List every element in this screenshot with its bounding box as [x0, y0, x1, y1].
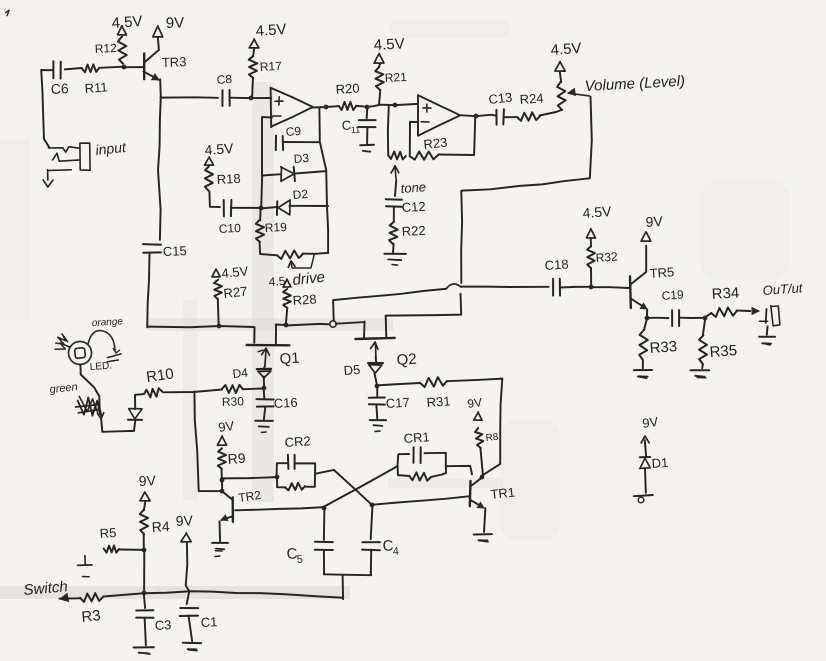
wire 9V to C1 — [186, 542, 190, 604]
resistor R24 — [517, 112, 540, 121]
power arrow 4.5V volume — [555, 62, 565, 72]
resistor R32 — [587, 238, 595, 268]
wire emitter to C8 — [160, 96, 218, 99]
resistor R27 — [214, 280, 222, 300]
wire D5 to R31 — [376, 383, 420, 385]
wire D2 left — [261, 207, 277, 209]
capacitor C8 — [222, 90, 229, 106]
capacitor CR2 cap — [288, 455, 295, 469]
svg-text:R5: R5 — [99, 525, 117, 541]
node R9 junction — [220, 478, 225, 483]
wire bus to circle junction — [286, 324, 329, 326]
resistor R5 — [104, 546, 119, 553]
wire C10 right — [231, 207, 261, 209]
wire left rail C9-D3 — [261, 143, 263, 175]
ground R35 — [691, 364, 710, 378]
wire C5 diag to CR1 — [324, 466, 398, 507]
wire volume down 3 — [386, 294, 462, 316]
resistor R34 — [705, 308, 737, 318]
label input — [95, 139, 128, 158]
ground TR2 — [212, 543, 228, 557]
power arrow 9V R8 — [474, 412, 482, 420]
transistor TR5 — [630, 246, 647, 318]
svg-text:R11: R11 — [84, 79, 108, 96]
svg-text:R3: R3 — [81, 607, 102, 626]
svg-text:R34: R34 — [711, 285, 739, 303]
svg-text:R32: R32 — [595, 249, 618, 265]
label TR5 — [649, 264, 675, 281]
wire LED bottom — [101, 419, 134, 432]
node R17 junction — [249, 96, 254, 101]
node bus C3 junction — [142, 591, 147, 596]
label C12 — [401, 199, 426, 215]
resistor R23 — [410, 152, 438, 160]
power 4.5V label R17 — [255, 21, 287, 40]
label C17 — [385, 395, 410, 411]
svg-text:9V: 9V — [641, 414, 659, 431]
wire R10 left down — [135, 394, 143, 409]
svg-text:input: input — [95, 139, 128, 158]
capacitor C9 — [276, 136, 283, 150]
power arrow 4.5V R18 — [205, 157, 214, 165]
svg-text:R35: R35 — [709, 342, 738, 361]
svg-text:4.5V: 4.5V — [255, 21, 287, 40]
power arrow 4.5V R32 — [587, 229, 596, 238]
wire drain bus up — [333, 289, 446, 321]
resistor R33 — [639, 319, 648, 361]
label D4 — [232, 365, 249, 381]
capacitor C11 — [358, 107, 375, 127]
node TR2 coll junction — [220, 489, 225, 494]
power arrow 4.5V R27 — [212, 269, 220, 277]
label C6 — [50, 80, 69, 97]
power arrow 9V C1 — [181, 533, 191, 542]
resistor R17 — [249, 49, 257, 78]
power 4.5V label volume — [550, 40, 582, 59]
power 9V label R4 — [138, 472, 157, 489]
volume wiper arrow — [568, 89, 589, 96]
label Q1 — [279, 350, 300, 368]
label C19 — [661, 287, 684, 303]
svg-text:9V: 9V — [138, 472, 157, 489]
capacitor C1 — [180, 608, 198, 616]
resistor R10 — [144, 388, 162, 397]
box CR1 — [398, 453, 447, 476]
svg-text:C16: C16 — [273, 395, 298, 411]
LED equal marks — [107, 354, 121, 362]
label Volume — [584, 73, 685, 95]
svg-text:R31: R31 — [426, 393, 451, 410]
svg-text:9V: 9V — [645, 213, 664, 230]
wire bottom drop to bus — [342, 576, 345, 600]
wire R5 to R4 — [119, 549, 144, 551]
svg-text:C10: C10 — [218, 221, 241, 236]
output jack — [759, 306, 780, 326]
node D5 junction — [375, 384, 380, 389]
wire C12 to R22 — [393, 207, 395, 222]
wire C5 C4 bottom — [324, 573, 372, 576]
ground C11 — [360, 127, 374, 151]
wire R30 left — [163, 390, 222, 393]
svg-text:C15: C15 — [163, 243, 187, 259]
ground C16 — [255, 407, 273, 433]
capacitor C18 — [553, 279, 560, 296]
wire R32 down — [590, 268, 592, 287]
node CR2 left — [275, 475, 280, 480]
label R27 — [223, 284, 248, 301]
power 9V label D1 — [641, 414, 659, 431]
resistor R31 — [420, 377, 447, 387]
label C10 — [218, 221, 241, 236]
LED circle — [69, 342, 92, 365]
svg-text:4.5V: 4.5V — [582, 203, 613, 221]
wire circle to Q2 gate — [336, 322, 364, 324]
wire R21 down — [379, 90, 380, 105]
node U1 output — [324, 105, 329, 110]
svg-text:9V: 9V — [217, 418, 235, 435]
label Switch — [23, 578, 69, 599]
wire D4 down — [263, 377, 265, 388]
wire U1 minus stub — [262, 117, 272, 143]
resistor CR1 res — [409, 472, 443, 480]
wire diag to R31 wire — [481, 464, 499, 476]
wire bottom bus — [103, 591, 343, 597]
arrowhead LED wire — [97, 413, 103, 419]
label C3 — [154, 617, 171, 633]
label R34 — [711, 285, 739, 303]
label R3 — [81, 607, 102, 626]
wire volume down — [462, 97, 592, 191]
power arrow 4.5V R17 — [249, 39, 259, 48]
power arrow 9V TR5 — [641, 232, 651, 241]
resistor R21 — [375, 64, 384, 90]
ground output jack — [759, 326, 775, 345]
svg-text:4.5V: 4.5V — [221, 263, 249, 281]
svg-text:drive: drive — [292, 269, 326, 289]
svg-text:C19: C19 — [661, 287, 684, 303]
svg-text:R9: R9 — [227, 450, 246, 467]
svg-text:LED.: LED. — [89, 360, 112, 373]
resistor R28 — [283, 289, 291, 308]
wire R4 to bus — [143, 550, 145, 593]
label tone — [400, 179, 426, 196]
label R23 — [423, 135, 448, 152]
power 4.5V label R21 — [373, 35, 405, 54]
svg-text:CR1: CR1 — [403, 429, 430, 446]
capacitor C16 — [257, 388, 274, 407]
power 4.5V label R32 — [582, 203, 613, 221]
diode D3 — [281, 167, 295, 182]
label R35 — [709, 342, 738, 361]
wire R23 right up to output — [438, 118, 475, 155]
node R35 junction — [703, 316, 708, 321]
wire CR2 to C4 diag — [316, 470, 372, 505]
wire LED curvy — [81, 365, 102, 416]
label R9 — [227, 450, 246, 467]
label R8 — [485, 432, 499, 444]
power 9V label C1 — [175, 512, 194, 529]
label D2 — [292, 187, 309, 202]
node R27 junction — [217, 324, 222, 329]
wire C13 to R24 — [504, 116, 517, 118]
label R21 — [384, 70, 407, 85]
LED arc wire — [88, 331, 120, 353]
label R22 — [401, 223, 426, 239]
wire hop over volume line — [446, 284, 461, 289]
drive pot wiper arrow — [288, 255, 314, 268]
label Q2 — [396, 351, 417, 369]
resistor R20 — [338, 102, 356, 110]
label C5 — [286, 545, 303, 566]
node C5 junction — [322, 506, 327, 511]
wire emitter to C19 — [647, 317, 669, 319]
node U2 output — [474, 114, 479, 119]
label Output — [762, 280, 804, 298]
resistor R11 — [82, 64, 99, 72]
svg-text:9V: 9V — [175, 512, 194, 529]
svg-text:D2: D2 — [292, 187, 309, 202]
resistor R22 — [389, 222, 398, 244]
power arrow drive — [283, 279, 291, 287]
label R19 — [264, 220, 287, 235]
power arrow 4.5V R21 — [374, 54, 384, 64]
svg-text:4.5V: 4.5V — [111, 13, 143, 32]
capacitor C6 — [53, 61, 60, 78]
svg-text:orange: orange — [92, 316, 124, 329]
transistor TR2 — [220, 491, 234, 541]
wire box vertical — [194, 392, 222, 492]
svg-text:C6: C6 — [50, 80, 69, 97]
wire to C18 — [461, 286, 549, 288]
label C16 — [273, 395, 298, 411]
svg-text:R28: R28 — [292, 291, 317, 308]
box CR2 — [277, 463, 316, 487]
resistor R30 — [222, 385, 243, 393]
power arrow 9V TR3 — [153, 26, 163, 37]
svg-text:R23: R23 — [423, 135, 448, 152]
op-amp U2 — [418, 95, 460, 136]
power arrow 9V R9 — [217, 436, 226, 445]
label R20 — [335, 80, 360, 97]
diode D6 LED indicator — [128, 409, 142, 431]
ground D1 — [634, 495, 653, 503]
label D3 — [293, 151, 310, 166]
stray mark — [5, 10, 9, 16]
resistor tone pot track — [388, 152, 406, 160]
label R28 — [292, 291, 317, 308]
wire CR2 to junction — [221, 480, 223, 491]
power 9V label TR3 — [166, 14, 185, 32]
tone wiper arrow — [391, 166, 399, 181]
wire CR1 right — [446, 466, 472, 474]
transistor TR1 — [470, 478, 486, 532]
ground R22 — [384, 244, 406, 266]
svg-text:C12: C12 — [401, 199, 426, 215]
wire C5 down — [323, 550, 325, 574]
wire D1 down — [644, 468, 647, 493]
svg-text:C13: C13 — [488, 90, 513, 107]
wire R9 to CR2 — [221, 477, 277, 478]
label CR2 — [284, 433, 311, 450]
wire to U2 plus — [379, 104, 419, 105]
node TR3 base junction — [122, 65, 127, 70]
power 9V label R8 — [466, 395, 482, 411]
wire R19 down corner — [260, 242, 277, 256]
node TR5 emitter junction — [645, 316, 650, 321]
label drive 45 — [268, 269, 326, 289]
label R30 — [222, 394, 245, 409]
label C18 — [544, 256, 569, 273]
wire D3 right — [295, 171, 326, 173]
wire C18 to R32 junction — [560, 286, 591, 289]
label C9 — [285, 124, 302, 139]
label C8 — [216, 72, 233, 87]
label R11 — [84, 79, 108, 96]
wire R9 down — [221, 470, 223, 480]
resistor R19b drive pot track — [277, 251, 303, 260]
diode D2 — [277, 200, 290, 215]
wire D2 right — [289, 205, 328, 207]
label C1 — [200, 614, 217, 630]
svg-text:D5: D5 — [343, 362, 361, 378]
node U2 plus junction — [393, 103, 398, 108]
label TR1 — [490, 484, 516, 501]
label R32 — [595, 249, 618, 265]
resistor R35 — [699, 318, 707, 364]
wire Q2 drain rise — [385, 316, 388, 338]
resistor R19 — [256, 220, 264, 242]
wire U1 output — [313, 106, 339, 107]
label C11 — [341, 118, 360, 135]
wire TR2 base right — [235, 507, 324, 510]
wire R11 to junction — [65, 67, 124, 70]
capacitor C12 — [386, 181, 403, 207]
ground C17 — [370, 405, 386, 431]
label R18 — [216, 171, 241, 187]
capacitor C13 — [493, 109, 504, 124]
svg-text:D1: D1 — [651, 455, 669, 471]
LED rays — [55, 334, 70, 349]
label C4 — [382, 537, 399, 558]
label TR2 — [237, 488, 262, 505]
svg-text:tone: tone — [400, 179, 426, 196]
svg-text:4.5V: 4.5V — [204, 140, 235, 158]
resistor R4 — [140, 502, 148, 534]
label D5 — [343, 362, 361, 378]
wire D5 down — [374, 373, 377, 385]
wire pot right to rail — [303, 252, 328, 255]
power 4.5V label R27 — [221, 263, 249, 281]
wire TR3 emitter down — [158, 79, 161, 239]
wire R4 down — [143, 533, 145, 549]
wire left rail D3-D2 — [261, 175, 262, 209]
arrowhead switch — [60, 594, 69, 602]
ground floating R5 — [78, 556, 92, 577]
wire R34 to output — [736, 310, 750, 313]
ground below input jack — [43, 180, 53, 187]
svg-text:R8: R8 — [485, 432, 499, 444]
label R24 — [519, 90, 544, 107]
svg-text:R17: R17 — [259, 59, 282, 74]
resistor R12 — [118, 35, 127, 64]
label C13 — [488, 90, 513, 107]
resistor R9 — [218, 448, 226, 469]
node C11 junction — [365, 105, 370, 110]
input jack — [48, 143, 91, 180]
label R4 — [151, 518, 170, 535]
op-amp U1 — [271, 88, 313, 128]
svg-text:R20: R20 — [335, 80, 360, 97]
svg-text:CR2: CR2 — [284, 433, 311, 450]
wire tone rail left — [387, 105, 390, 154]
ground TR1 — [474, 534, 492, 542]
power arrow 9V R4 — [140, 492, 150, 501]
resistor R18 — [205, 166, 213, 191]
capacitor C17 — [369, 386, 385, 405]
capacitor C10 — [224, 200, 232, 216]
svg-text:C17: C17 — [385, 395, 410, 411]
wire bus Q1 to R28 — [276, 324, 286, 327]
wire D3 left — [262, 174, 281, 175]
label LED — [89, 360, 112, 373]
ground C3 — [134, 618, 154, 654]
volume pot track — [557, 72, 565, 110]
svg-text:C1: C1 — [200, 614, 217, 630]
wire C6 left to input jack — [41, 70, 52, 147]
svg-text:Q2: Q2 — [396, 351, 417, 369]
wire C19 to R34 junction — [679, 317, 705, 319]
svg-text:D3: D3 — [293, 151, 310, 166]
svg-text:TR1: TR1 — [490, 484, 516, 501]
svg-text:D4: D4 — [232, 365, 249, 381]
transistor Q1 — [247, 325, 290, 366]
wire main bus — [148, 326, 254, 327]
svg-text:R19: R19 — [264, 220, 287, 235]
capacitor C4 — [362, 505, 380, 550]
label R12 — [94, 41, 117, 56]
wire volume down 2 — [460, 191, 463, 283]
svg-text:R33: R33 — [649, 338, 678, 357]
wire to TR5 base — [591, 286, 629, 289]
wire R17 down — [251, 79, 254, 98]
capacitor C19 — [672, 310, 679, 326]
wire arrow D1 up — [641, 436, 649, 456]
svg-text:OuT/ut: OuT/ut — [762, 280, 804, 298]
wire left rail D2-R19 — [259, 209, 261, 221]
wire R28 down — [286, 308, 288, 325]
svg-text:R24: R24 — [519, 90, 544, 107]
svg-text:TR3: TR3 — [162, 54, 187, 70]
label green — [49, 381, 78, 396]
wire junction to R21junct — [367, 105, 379, 107]
label CR1 — [403, 429, 430, 446]
svg-text:9V: 9V — [166, 14, 185, 32]
wire C8 to opamp — [229, 97, 271, 99]
wire C9 right — [283, 141, 319, 143]
node TR1 coll junction — [480, 475, 485, 480]
svg-text:R30: R30 — [222, 394, 245, 409]
svg-text:11: 11 — [351, 125, 361, 135]
label TR3 — [162, 54, 187, 70]
node open circle junction — [330, 321, 336, 327]
wire R24 to volume — [540, 110, 562, 116]
power 4.5V label R18 — [204, 140, 235, 158]
svg-text:4.5V: 4.5V — [373, 35, 405, 54]
capacitor C3 — [136, 593, 153, 618]
wire junction to R30 — [243, 388, 263, 391]
label C15 — [163, 243, 187, 259]
svg-text:R4: R4 — [151, 518, 170, 535]
